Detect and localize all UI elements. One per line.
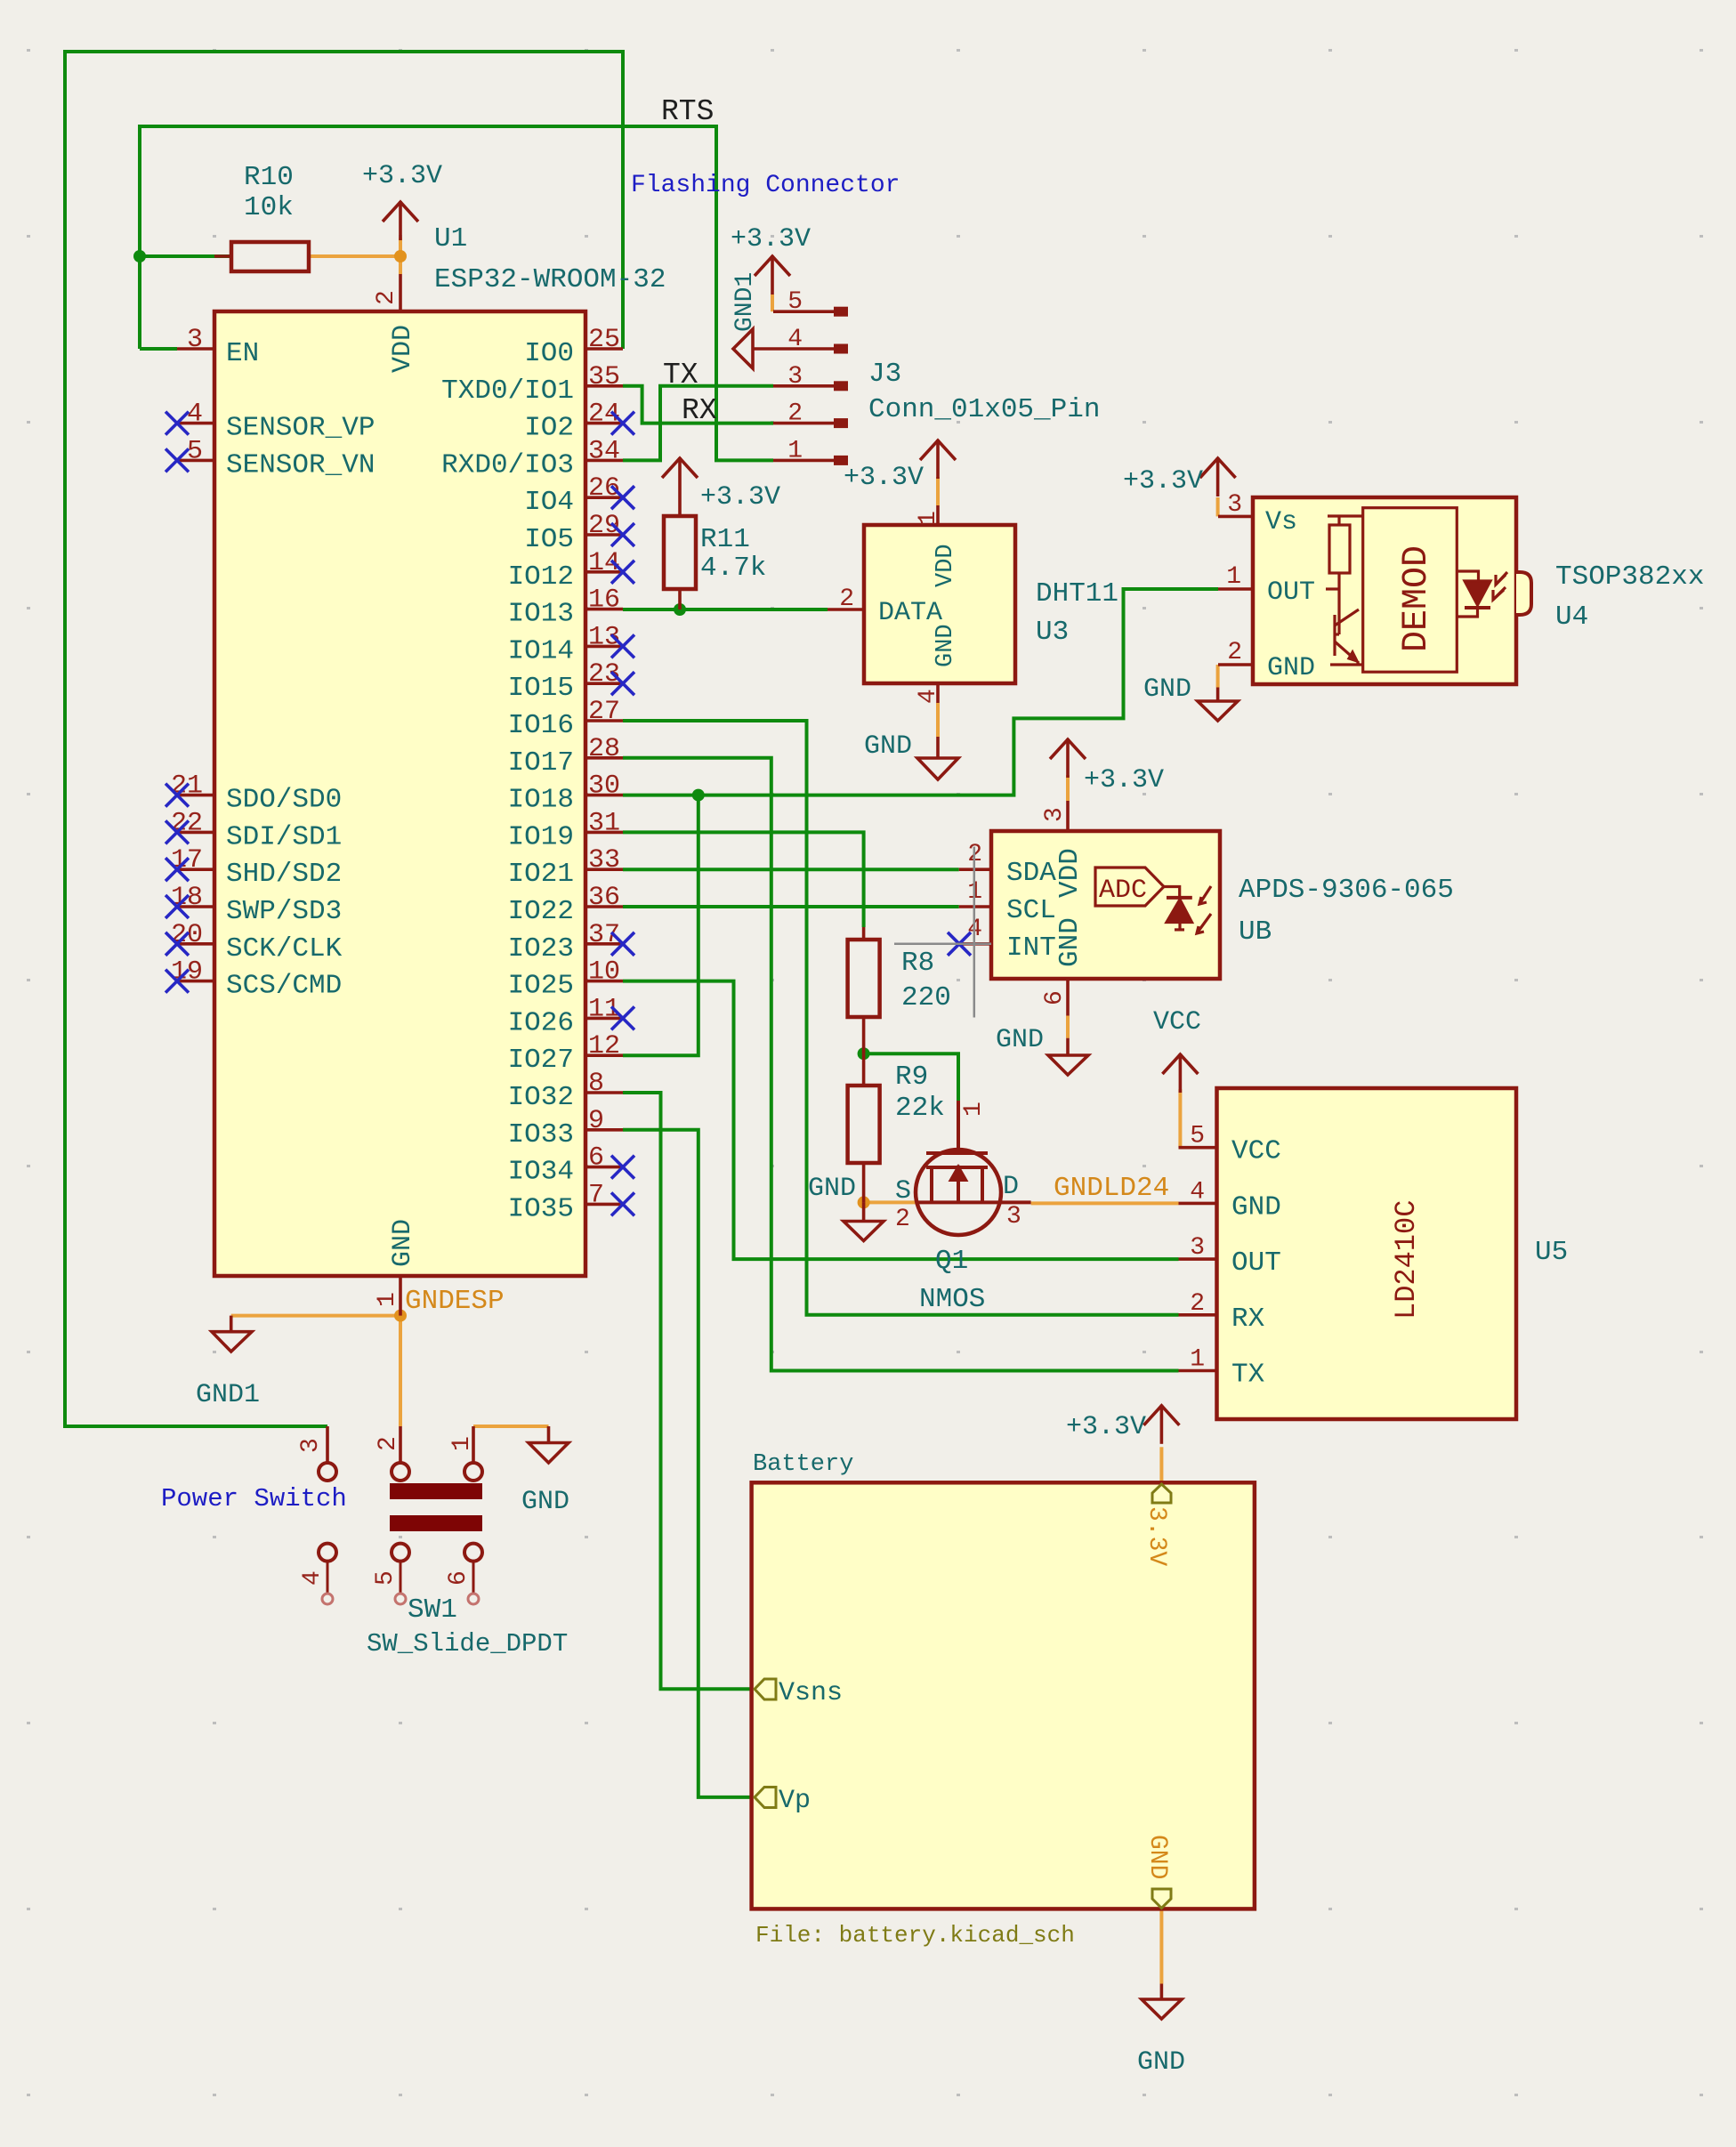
svg-text:Power Switch: Power Switch xyxy=(161,1484,347,1513)
svg-text:1: 1 xyxy=(374,1292,401,1307)
svg-text:5: 5 xyxy=(787,288,803,316)
svg-text:30: 30 xyxy=(588,771,620,802)
wire RTS net (EN pull / J3 pin1) xyxy=(140,126,773,460)
svg-text:4.7k: 4.7k xyxy=(700,553,766,584)
U5 pin 3 OUT xyxy=(1179,1234,1281,1279)
svg-text:Flashing Connector: Flashing Connector xyxy=(631,172,900,199)
power +3.3V (U4 Vs) xyxy=(1123,457,1236,496)
wire VCC to U5 VCC xyxy=(1178,1089,1182,1148)
J3 pin 3 xyxy=(773,363,848,391)
label GNDLD24 xyxy=(1054,1173,1169,1204)
svg-text:IO19: IO19 xyxy=(508,821,574,852)
power +3.3V (J3 pin5) xyxy=(731,224,811,295)
U1 pin 4 SENSOR_VP xyxy=(166,400,375,444)
wire R8-R9 junction to Q1 gate xyxy=(864,1053,958,1101)
U1 pin 26 IO4 xyxy=(524,473,634,518)
svg-text:SENSOR_VP: SENSOR_VP xyxy=(226,413,375,444)
wire IO18 to U4 OUT xyxy=(623,589,1218,795)
wire IO13 to DHT11 DATA xyxy=(623,608,828,611)
power GND1 (J3 pin4) xyxy=(731,272,773,368)
svg-text:220: 220 xyxy=(901,982,951,1013)
svg-text:10k: 10k xyxy=(244,192,294,223)
J3 pin 5 xyxy=(773,288,848,317)
svg-text:IO25: IO25 xyxy=(508,971,574,1002)
svg-text:4: 4 xyxy=(1190,1178,1205,1206)
svg-text:IO4: IO4 xyxy=(524,487,574,518)
svg-text:TX: TX xyxy=(1231,1360,1265,1391)
svg-text:RTS: RTS xyxy=(661,95,714,128)
wire +3.3V to DHT VDD xyxy=(936,477,940,505)
svg-text:ADC: ADC xyxy=(1099,876,1147,906)
svg-text:4: 4 xyxy=(299,1570,327,1586)
svg-text:U5: U5 xyxy=(1535,1237,1568,1268)
wire SDA (IO21 to UB SDA) xyxy=(623,868,959,871)
svg-text:IO13: IO13 xyxy=(508,599,574,630)
wire R10 left to EN vertical xyxy=(140,254,231,258)
svg-text:SENSOR_VN: SENSOR_VN xyxy=(226,449,375,480)
J3 pin 4 xyxy=(773,326,848,354)
svg-text:IO0: IO0 xyxy=(524,338,574,369)
U1 pin 6 IO34 xyxy=(508,1143,634,1188)
UB internal ADC tag xyxy=(1095,868,1164,906)
svg-text:5: 5 xyxy=(187,436,203,466)
label TX xyxy=(663,359,698,391)
graphic grey cross lines at UB INT xyxy=(894,847,991,1018)
svg-text:2: 2 xyxy=(839,585,854,613)
wire IO19 to R8 xyxy=(623,832,864,927)
svg-text:+3.3V: +3.3V xyxy=(362,161,442,191)
svg-text:U4: U4 xyxy=(1555,601,1588,633)
svg-text:6: 6 xyxy=(1041,990,1069,1005)
svg-text:3: 3 xyxy=(1041,807,1069,822)
svg-text:1: 1 xyxy=(960,1102,988,1117)
U1 pin 30 IO18 xyxy=(508,771,623,816)
label Power Switch xyxy=(161,1484,347,1513)
svg-text:3.3V: 3.3V xyxy=(1143,1506,1170,1566)
svg-text:GND1: GND1 xyxy=(731,272,759,332)
U5 LD2410C body xyxy=(1217,1088,1569,1419)
svg-text:6: 6 xyxy=(588,1143,604,1174)
svg-text:GND1: GND1 xyxy=(196,1380,260,1410)
wire +3.3V to battery 3.3V pin xyxy=(1159,1447,1163,1482)
svg-text:34: 34 xyxy=(588,436,620,466)
ground GND (UB) xyxy=(996,1025,1088,1075)
resistor R9 xyxy=(848,1053,945,1202)
wire battery GND pin to GND xyxy=(1159,1909,1163,1984)
wire IO33 to battery Vp xyxy=(623,1130,755,1797)
wire UB GND xyxy=(1066,1016,1070,1038)
U1 pin 2 VDD xyxy=(373,274,418,373)
svg-text:8: 8 xyxy=(588,1069,604,1099)
svg-text:2: 2 xyxy=(1190,1290,1205,1318)
svg-text:2: 2 xyxy=(787,400,803,428)
UB pin 3 VDD xyxy=(1041,801,1086,898)
wire GNDESP net (ESP GND to SW1 pin2 and GND1) xyxy=(231,1316,400,1426)
wire R9 bottom / Q1 source GND xyxy=(864,1200,916,1204)
svg-text:S: S xyxy=(895,1176,911,1207)
svg-text:VDD: VDD xyxy=(388,325,418,373)
svg-text:GND: GND xyxy=(1267,653,1315,683)
svg-text:SDO/SD0: SDO/SD0 xyxy=(226,785,342,816)
svg-text:2: 2 xyxy=(895,1206,910,1233)
svg-text:APDS-9306-065: APDS-9306-065 xyxy=(1239,875,1454,906)
svg-text:Vp: Vp xyxy=(779,1786,811,1816)
switch SW1 SW_Slide_DPDT xyxy=(297,1426,568,1659)
U1 pin 8 IO32 xyxy=(508,1069,623,1113)
U1 pin 35 TXD0/IO1 xyxy=(441,362,623,407)
svg-text:Q1: Q1 xyxy=(935,1246,968,1277)
svg-text:U3: U3 xyxy=(1036,617,1069,648)
svg-text:+3.3V: +3.3V xyxy=(1066,1412,1146,1442)
svg-text:+3.3V: +3.3V xyxy=(1084,765,1164,795)
svg-text:IO15: IO15 xyxy=(508,673,574,704)
U4 pin 3 Vs xyxy=(1218,491,1297,537)
svg-text:5: 5 xyxy=(1190,1123,1205,1150)
svg-text:3: 3 xyxy=(1227,491,1242,519)
svg-text:SDA: SDA xyxy=(1006,858,1056,889)
UB pin 2 SDA xyxy=(959,841,1057,889)
svg-text:ESP32-WROOM-32: ESP32-WROOM-32 xyxy=(434,264,666,295)
wire IO17 to U5 TX xyxy=(623,758,1179,1371)
svg-text:1: 1 xyxy=(448,1436,476,1451)
wire TX net (TXD0/IO1 to J3 pin2) xyxy=(623,386,773,424)
U3 pin 4 GND xyxy=(915,624,959,704)
svg-text:+3.3V: +3.3V xyxy=(1123,466,1203,496)
UB internal photodiode xyxy=(1164,886,1211,933)
U5 pin 2 RX xyxy=(1179,1290,1265,1335)
junction IO18-IO27 xyxy=(692,789,705,802)
sheet pin Vp xyxy=(755,1786,811,1816)
label GNDESP xyxy=(405,1286,505,1317)
svg-text:35: 35 xyxy=(588,362,620,392)
svg-text:GND: GND xyxy=(521,1487,569,1517)
svg-text:+3.3V: +3.3V xyxy=(844,463,924,493)
svg-text:IO12: IO12 xyxy=(508,561,574,593)
svg-text:3: 3 xyxy=(787,363,803,391)
svg-text:RX: RX xyxy=(1231,1304,1265,1335)
UB APDS-9306-065 body xyxy=(991,831,1454,979)
U1 pin 17 SHD/SD2 xyxy=(166,845,342,890)
U1 pin 3 EN xyxy=(177,325,259,369)
U1 pin 20 SCK/CLK xyxy=(166,920,343,965)
svg-text:GNDESP: GNDESP xyxy=(405,1286,505,1317)
wire IO25 to U5 OUT xyxy=(623,981,1179,1260)
ground GND1 (ESP GND) xyxy=(196,1316,260,1410)
power +3.3V (DHT11 VDD) xyxy=(844,440,956,493)
U1 pin 16 IO13 xyxy=(508,585,623,630)
svg-text:U1: U1 xyxy=(434,223,467,254)
svg-text:J3: J3 xyxy=(868,359,901,390)
svg-text:DHT11: DHT11 xyxy=(1036,578,1118,609)
wire RX net (RXD0/IO3 to J3 pin3) xyxy=(623,386,773,461)
sheet pin GND (battery bottom) xyxy=(1143,1835,1171,1909)
svg-text:IO5: IO5 xyxy=(524,524,574,555)
sheet Battery xyxy=(752,1451,1255,1949)
U1 pin 19 SCS/CMD xyxy=(166,957,342,1002)
U1 ESP32-WROOM-32 body xyxy=(214,223,666,1276)
svg-text:27: 27 xyxy=(588,697,620,727)
wire +3.3V to J3 pin5 xyxy=(771,295,774,311)
svg-text:GND: GND xyxy=(996,1025,1044,1055)
svg-text:Vs: Vs xyxy=(1265,507,1297,537)
wire DHT GND xyxy=(936,703,940,737)
svg-text:+3.3V: +3.3V xyxy=(731,224,811,254)
svg-text:7: 7 xyxy=(588,1180,604,1210)
svg-text:28: 28 xyxy=(588,734,620,764)
U1 pin 31 IO19 xyxy=(508,808,623,852)
svg-text:R10: R10 xyxy=(244,162,294,193)
resistor R10 xyxy=(214,162,309,271)
svg-text:31: 31 xyxy=(588,808,620,838)
svg-text:3: 3 xyxy=(297,1438,325,1453)
wire U4 GND xyxy=(1216,665,1220,688)
svg-text:5: 5 xyxy=(372,1570,400,1586)
U1 pin 25 IO0 xyxy=(524,325,623,369)
svg-text:SHD/SD2: SHD/SD2 xyxy=(226,859,342,890)
svg-text:NMOS: NMOS xyxy=(919,1284,985,1315)
U1 pin 1 GND xyxy=(374,1219,418,1316)
J3 reference xyxy=(868,359,901,390)
svg-text:TXD0/IO1: TXD0/IO1 xyxy=(441,375,574,407)
U1 pin 13 IO14 xyxy=(508,622,634,666)
U1 pin 22 SDI/SD1 xyxy=(166,808,342,852)
svg-text:IO23: IO23 xyxy=(508,933,574,965)
svg-text:RXD0/IO3: RXD0/IO3 xyxy=(441,449,574,480)
svg-text:OUT: OUT xyxy=(1231,1247,1281,1279)
U4 pin 2 GND xyxy=(1218,639,1315,683)
svg-text:4: 4 xyxy=(787,326,803,353)
svg-text:36: 36 xyxy=(588,883,620,913)
wire GNDLD24 (Q1 drain to U5 GND) xyxy=(1031,1201,1179,1205)
U1 pin 21 SDO/SD0 xyxy=(166,771,342,816)
svg-text:GND: GND xyxy=(1143,1835,1171,1879)
svg-text:GND: GND xyxy=(1137,2047,1185,2078)
ground GND (DHT11) xyxy=(864,731,958,779)
U5 pin 5 VCC xyxy=(1179,1123,1281,1167)
ground GND (R9/Q1 source) xyxy=(808,1174,884,1241)
svg-text:GND: GND xyxy=(933,624,959,667)
wire SCL (IO22 to UB SCL) xyxy=(623,905,959,908)
U1 pin 33 IO21 xyxy=(508,845,623,890)
power VCC (U5) xyxy=(1153,1007,1201,1093)
U4 internal circuit xyxy=(1326,516,1362,665)
wire +3.3V to U4 Vs xyxy=(1216,497,1220,516)
U1 pin 37 IO23 xyxy=(508,920,634,965)
U1 pin 29 IO5 xyxy=(524,511,634,555)
svg-text:IO22: IO22 xyxy=(508,896,574,927)
svg-text:1: 1 xyxy=(915,511,942,526)
ground GND (U4) xyxy=(1143,674,1238,721)
sheet pin Vsns xyxy=(755,1678,843,1708)
junction VDD +3.3V xyxy=(394,250,407,262)
svg-text:Battery: Battery xyxy=(753,1451,853,1478)
label RX xyxy=(682,394,717,427)
svg-text:12: 12 xyxy=(588,1031,620,1061)
svg-text:SW1: SW1 xyxy=(408,1594,457,1626)
wire IO0 to SW1 pin3 (net IO0) xyxy=(65,52,623,1426)
svg-text:1: 1 xyxy=(1226,563,1241,591)
junction R11-DATA xyxy=(674,603,686,616)
svg-text:IO32: IO32 xyxy=(508,1082,574,1113)
junction R10-EN xyxy=(133,250,146,262)
wire +3.3V to UB VDD xyxy=(1066,775,1070,801)
svg-text:TX: TX xyxy=(663,359,698,391)
U1 pin 9 IO33 xyxy=(508,1106,623,1150)
U1 pin 7 IO35 xyxy=(508,1180,634,1224)
svg-text:IO34: IO34 xyxy=(508,1157,574,1188)
U1 pin 11 IO26 xyxy=(508,994,634,1038)
U1 pin 12 IO27 xyxy=(508,1031,623,1076)
wire IO27 branch xyxy=(623,795,698,1056)
svg-text:IO27: IO27 xyxy=(508,1045,574,1076)
svg-text:IO16: IO16 xyxy=(508,710,574,741)
power +3.3V (battery) xyxy=(1066,1405,1179,1444)
svg-text:GNDLD24: GNDLD24 xyxy=(1054,1173,1169,1204)
svg-text:3: 3 xyxy=(187,325,203,355)
svg-text:2: 2 xyxy=(375,1436,402,1451)
svg-text:2: 2 xyxy=(1227,639,1242,666)
svg-text:9: 9 xyxy=(588,1106,604,1136)
svg-text:2: 2 xyxy=(373,290,400,305)
U5 pin 4 GND xyxy=(1179,1178,1281,1223)
svg-text:TSOP382xx: TSOP382xx xyxy=(1555,561,1704,593)
svg-text:4: 4 xyxy=(187,400,203,430)
U4 internal photodiode xyxy=(1456,571,1507,617)
svg-text:File: battery.kicad_sch: File: battery.kicad_sch xyxy=(755,1922,1075,1949)
U4 internal demodulator block xyxy=(1363,508,1457,673)
J3 pin 2 xyxy=(773,400,848,429)
svg-text:SCS/CMD: SCS/CMD xyxy=(226,971,342,1002)
U4 TSOP382xx body xyxy=(1253,497,1704,684)
U3 pin 2 DATA xyxy=(828,585,942,628)
U1 pin 24 IO2 xyxy=(524,400,634,444)
svg-text:1: 1 xyxy=(1190,1346,1205,1374)
svg-text:SCL: SCL xyxy=(1006,895,1056,926)
svg-text:1: 1 xyxy=(787,437,803,464)
svg-text:25: 25 xyxy=(588,325,620,355)
wire SW1 pin1 to GND xyxy=(473,1425,549,1428)
svg-text:EN: EN xyxy=(226,338,259,369)
ground GND (battery) xyxy=(1137,1984,1185,2078)
svg-text:GND: GND xyxy=(1054,917,1086,967)
power +3.3V (VDD rail) xyxy=(362,161,442,240)
U1 pin 27 IO16 xyxy=(508,697,623,741)
svg-text:4: 4 xyxy=(915,689,942,704)
transistor Q1 NMOS xyxy=(895,1101,1031,1315)
svg-text:GND: GND xyxy=(808,1174,856,1204)
resistor R11 xyxy=(664,496,766,609)
svg-text:IO14: IO14 xyxy=(508,635,574,666)
junction R8-R9-gate xyxy=(858,1047,870,1060)
svg-text:GND: GND xyxy=(388,1219,418,1267)
svg-text:SWP/SD3: SWP/SD3 xyxy=(226,896,342,927)
svg-text:RX: RX xyxy=(682,394,717,427)
svg-text:VCC: VCC xyxy=(1231,1136,1281,1167)
sheet pin 3.3V xyxy=(1143,1484,1171,1566)
svg-text:IO17: IO17 xyxy=(508,747,574,779)
U3 pin 1 VDD xyxy=(915,505,959,587)
U5 pin 1 TX xyxy=(1179,1346,1265,1391)
label Flashing Connector xyxy=(631,172,900,199)
svg-text:UB: UB xyxy=(1239,916,1272,948)
svg-text:R11: R11 xyxy=(700,524,750,555)
wire IO32 to battery Vsns xyxy=(623,1093,755,1689)
svg-text:3: 3 xyxy=(1006,1203,1021,1231)
U1 pin 10 IO25 xyxy=(508,957,623,1002)
svg-text:GND: GND xyxy=(1231,1191,1281,1223)
U1 pin 23 IO15 xyxy=(508,659,634,704)
svg-text:INT: INT xyxy=(1006,932,1056,964)
power +3.3V (UB VDD) xyxy=(1050,739,1164,795)
svg-text:GND: GND xyxy=(1143,674,1191,705)
U3 DHT11 body xyxy=(864,525,1118,683)
svg-text:IO21: IO21 xyxy=(508,859,574,890)
svg-text:16: 16 xyxy=(588,585,620,616)
svg-text:10: 10 xyxy=(588,957,620,988)
svg-text:SW_Slide_DPDT: SW_Slide_DPDT xyxy=(367,1629,568,1659)
label RTS xyxy=(661,95,714,128)
svg-text:DATA: DATA xyxy=(878,598,942,628)
wire EN stub link xyxy=(140,347,177,351)
svg-text:Conn_01x05_Pin: Conn_01x05_Pin xyxy=(868,394,1100,425)
svg-text:GND: GND xyxy=(864,731,912,762)
U1 pin 34 RXD0/IO3 xyxy=(441,436,623,480)
svg-text:VDD: VDD xyxy=(933,544,959,587)
U1 pin 5 SENSOR_VN xyxy=(166,436,375,480)
UB pin 4 INT xyxy=(948,916,1056,964)
U1 pin 28 IO17 xyxy=(508,734,623,779)
svg-text:Vsns: Vsns xyxy=(779,1678,843,1708)
svg-text:IO18: IO18 xyxy=(508,785,574,816)
svg-text:SCK/CLK: SCK/CLK xyxy=(226,933,343,965)
resistor R8 xyxy=(848,927,951,1053)
U1 pin 14 IO12 xyxy=(508,548,634,593)
ground GND (SW1 pin1) xyxy=(521,1426,569,1517)
svg-text:DEMOD: DEMOD xyxy=(1397,545,1437,652)
svg-text:R8: R8 xyxy=(901,948,934,979)
svg-text:LD2410C: LD2410C xyxy=(1390,1200,1423,1320)
wire +3.3V to VDD (R10 right) xyxy=(309,238,400,274)
power +3.3V (R11) xyxy=(662,457,780,513)
svg-text:VCC: VCC xyxy=(1153,1007,1201,1037)
U4 pin 1 OUT xyxy=(1218,563,1315,608)
UB pin 6 GND xyxy=(1041,917,1086,1015)
svg-text:3: 3 xyxy=(1190,1234,1205,1262)
svg-text:SDI/SD1: SDI/SD1 xyxy=(226,821,342,852)
svg-text:IO35: IO35 xyxy=(508,1193,574,1224)
svg-text:R9: R9 xyxy=(895,1061,928,1093)
svg-text:+3.3V: +3.3V xyxy=(700,482,780,513)
svg-text:VDD: VDD xyxy=(1054,848,1086,898)
svg-text:33: 33 xyxy=(588,845,620,876)
svg-text:IO26: IO26 xyxy=(508,1007,574,1038)
wire IO16 to U5 RX xyxy=(623,721,1179,1315)
J3 pin 1 xyxy=(773,437,848,465)
svg-text:OUT: OUT xyxy=(1267,577,1315,608)
svg-text:IO33: IO33 xyxy=(508,1119,574,1150)
svg-text:22k: 22k xyxy=(895,1093,945,1124)
J3 value xyxy=(868,394,1100,425)
UB pin 1 SCL xyxy=(959,878,1056,926)
junction GNDESP xyxy=(394,1310,407,1322)
U1 pin 36 IO22 xyxy=(508,883,623,927)
junction R9-Q1-GND xyxy=(858,1196,870,1208)
U1 pin 18 SWP/SD3 xyxy=(166,883,342,927)
svg-text:6: 6 xyxy=(445,1570,472,1586)
svg-text:D: D xyxy=(1003,1172,1019,1202)
svg-text:IO2: IO2 xyxy=(524,413,574,444)
